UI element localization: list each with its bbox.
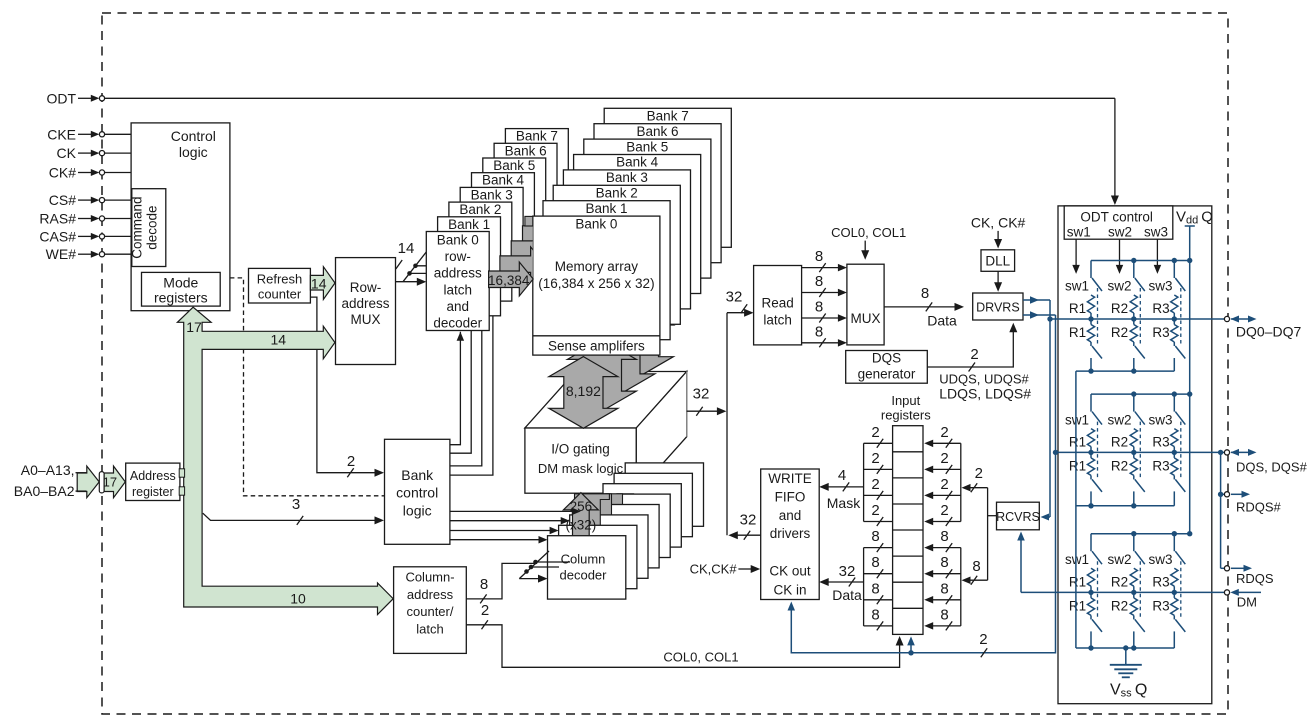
svg-text:RCVRS: RCVRS	[996, 510, 1040, 524]
svg-text:DLL: DLL	[985, 253, 1010, 268]
dashed wire: Mode registers to Bank control logic	[230, 278, 385, 496]
svg-text:DQS, DQS#: DQS, DQS#	[1236, 460, 1308, 475]
svg-text:2: 2	[871, 502, 879, 519]
svg-text:8: 8	[480, 576, 488, 593]
latch box bank 6	[494, 143, 557, 242]
input pin CKE	[47, 126, 131, 142]
svg-text:8: 8	[871, 554, 879, 571]
svg-text:4: 4	[838, 467, 846, 484]
gray bus chunk 256 bank 2	[595, 494, 612, 519]
svg-text:sw2: sw2	[1107, 279, 1131, 294]
memory array box bank 2	[553, 185, 680, 324]
svg-text:sw3: sw3	[1144, 224, 1168, 239]
column decoder box bank 5	[603, 484, 681, 547]
latch box bank 5	[483, 158, 546, 257]
svg-text:8: 8	[940, 580, 948, 597]
svg-text:Bank 1: Bank 1	[585, 201, 627, 216]
wires 8x4: read latch to MUX	[802, 248, 847, 347]
svg-text:Sense amplifers: Sense amplifers	[548, 339, 645, 354]
wire 8: column counter to column decoders	[466, 563, 535, 603]
svg-text:32: 32	[693, 386, 710, 403]
svg-text:latch: latch	[444, 282, 473, 297]
svg-text:Mode: Mode	[163, 274, 198, 290]
label COL0, COL1 into MUX	[831, 225, 906, 260]
svg-text:Bank: Bank	[401, 467, 434, 483]
memory array box bank 4	[574, 155, 701, 294]
navy wire: DRVRS lower output / DQS loop	[788, 311, 1056, 657]
gray bus chunk 256 bank 6	[0, 0, 1, 1]
block: Refresh counter	[249, 268, 311, 303]
svg-text:R3: R3	[1152, 574, 1169, 589]
input pin CAS#	[39, 228, 131, 244]
svg-text:and: and	[447, 299, 470, 314]
column decoder fanout taps	[519, 551, 570, 583]
wire 2: RCVRS to upper register bus	[962, 465, 988, 492]
block: ODT control header	[1064, 206, 1173, 239]
svg-text:R3: R3	[1152, 301, 1169, 316]
svg-text:(16,384 x 256 x 32): (16,384 x 256 x 32)	[538, 276, 654, 291]
svg-text:8: 8	[871, 528, 879, 545]
DQ cell bottom rail	[1076, 368, 1174, 373]
gray bus chunk 256 bank 4	[617, 494, 634, 498]
column decoder labels	[560, 552, 608, 583]
svg-text:R2: R2	[1111, 598, 1128, 613]
input pin RAS#	[39, 211, 131, 227]
svg-text:Command: Command	[130, 196, 145, 258]
svg-text:Bank 7: Bank 7	[516, 129, 558, 144]
svg-text:registers: registers	[154, 289, 208, 305]
column decoder box bank 2	[570, 515, 648, 578]
block: RCVRS	[996, 502, 1040, 530]
svg-text:Address: Address	[130, 469, 176, 483]
wire 32: write FIFO output	[728, 512, 760, 540]
svg-text:A0–A13,: A0–A13,	[21, 462, 75, 478]
svg-text:ODT control: ODT control	[1080, 210, 1153, 225]
svg-text:Bank 5: Bank 5	[493, 158, 535, 173]
svg-text:14: 14	[398, 240, 415, 257]
DM cell labels	[1065, 552, 1173, 613]
block: I/O gating / DM mask logic (3D box)	[525, 372, 687, 494]
svg-text:8: 8	[815, 273, 823, 290]
green arrow 17 into address register	[104, 466, 125, 498]
wire 32: I/O gating output	[687, 386, 727, 416]
wires: bank control logic to row latches (bank select)	[450, 316, 493, 475]
svg-text:Bank 3: Bank 3	[606, 170, 648, 185]
svg-text:COL0, COL1: COL0, COL1	[831, 225, 906, 240]
labels UDQS/LDQS	[939, 371, 1031, 401]
svg-text:CK#: CK#	[49, 165, 76, 181]
latch box bank 2	[449, 202, 512, 301]
svg-text:latch: latch	[763, 313, 792, 328]
svg-text:BA0–BA2: BA0–BA2	[14, 483, 75, 499]
wire ODT to ODT control block	[1111, 98, 1119, 205]
svg-text:logic: logic	[403, 502, 432, 518]
DM cell bottom rail	[1076, 645, 1174, 650]
green input arrow (address)	[77, 466, 99, 498]
svg-text:CAS#: CAS#	[39, 228, 76, 244]
wire 32 Data from registers to write FIFO	[819, 563, 863, 603]
RCVRS feed bus vertical	[988, 488, 997, 581]
DQS line	[1053, 450, 1224, 455]
svg-text:Bank 1: Bank 1	[448, 217, 490, 232]
svg-text:LDQS, LDQS#: LDQS, LDQS#	[939, 386, 1031, 402]
pad DM	[1224, 589, 1261, 610]
latch box bank 7	[505, 129, 568, 228]
pad on address input	[99, 472, 104, 493]
column decoder box bank 0	[548, 536, 626, 599]
pad DQ0-DQ7	[1224, 316, 1301, 340]
sense amplifiers strip	[533, 336, 660, 354]
svg-text:address: address	[434, 266, 482, 281]
wire 8 Data from MUX to DRVRS	[884, 285, 964, 329]
svg-text:sw1: sw1	[1065, 552, 1089, 567]
svg-text:R3: R3	[1152, 598, 1169, 613]
svg-text:CKE: CKE	[47, 126, 76, 142]
svg-text:Data: Data	[832, 587, 862, 603]
green tabs address register to bus	[179, 469, 184, 477]
svg-text:CK, CK#: CK, CK#	[971, 215, 1026, 231]
pad RDQS#	[1224, 491, 1281, 515]
svg-text:2: 2	[871, 424, 879, 441]
svg-text:decoder: decoder	[433, 316, 482, 331]
gray bus arrow 8,192 (front)	[549, 357, 618, 429]
svg-text:RDQS#: RDQS#	[1236, 500, 1282, 515]
gray bus chunk 256 bank 3	[606, 494, 623, 509]
memory array box bank 5	[584, 139, 711, 278]
latch box bank 1	[438, 217, 501, 316]
svg-text:32: 32	[839, 563, 856, 580]
wire 14: row-address MUX to bank row-address latches	[396, 240, 438, 286]
svg-text:DQS: DQS	[872, 350, 901, 365]
block: Command decode	[130, 189, 166, 267]
svg-text:8: 8	[815, 323, 823, 340]
column decoder box bank 6	[614, 473, 692, 536]
svg-text:16,384: 16,384	[488, 273, 530, 288]
wire 3: address bus to bank control logic	[203, 496, 384, 525]
svg-text:generator: generator	[858, 366, 916, 381]
svg-text:2: 2	[940, 502, 948, 519]
wire 32: to read latch	[726, 289, 754, 317]
svg-text:R3: R3	[1152, 458, 1169, 473]
svg-text:3: 3	[292, 496, 300, 513]
block: DQS generator	[846, 350, 928, 383]
navy wire: DM line to RCVRS	[1017, 532, 1025, 593]
svg-text:R1: R1	[1069, 434, 1086, 449]
svg-text:R2: R2	[1111, 434, 1128, 449]
svg-text:address: address	[341, 296, 389, 311]
svg-text:R2: R2	[1111, 325, 1128, 340]
ground symbol Vss Q	[1110, 648, 1142, 677]
svg-text:DM mask logic: DM mask logic	[538, 461, 624, 476]
gray bus chunk 256 bank 1	[575, 494, 610, 530]
column decoder box bank 4	[592, 494, 670, 557]
svg-text:R2: R2	[1111, 574, 1128, 589]
memory array box bank 6	[594, 124, 721, 263]
DQ cell labels	[1065, 279, 1173, 340]
svg-text:sw1: sw1	[1065, 413, 1089, 428]
svg-text:8,192: 8,192	[566, 383, 601, 399]
block: Input registers (8 cells)	[881, 393, 931, 635]
svg-text:Bank 2: Bank 2	[596, 186, 638, 201]
latch bank 0 labels	[433, 233, 482, 331]
svg-text:2: 2	[347, 453, 355, 470]
memory array box bank 1	[543, 201, 670, 340]
svg-text:sw1: sw1	[1067, 224, 1091, 239]
column decoder box bank 3	[581, 505, 659, 568]
svg-text:2: 2	[940, 424, 948, 441]
svg-text:2: 2	[975, 465, 983, 482]
svg-text:RAS#: RAS#	[39, 211, 76, 227]
control arrows to switches	[1072, 239, 1161, 274]
column decoder box bank 7	[625, 463, 703, 526]
svg-text:R3: R3	[1152, 434, 1169, 449]
svg-text:Mask: Mask	[827, 495, 861, 511]
svg-text:sw2: sw2	[1107, 413, 1131, 428]
svg-text:R2: R2	[1111, 458, 1128, 473]
svg-text:R1: R1	[1069, 301, 1086, 316]
svg-text:Row-: Row-	[350, 280, 382, 295]
block: Row-address MUX	[336, 258, 396, 365]
svg-text:Control: Control	[171, 128, 216, 144]
svg-text:Bank 0: Bank 0	[575, 217, 617, 232]
svg-text:2: 2	[871, 450, 879, 467]
wire 4 Mask: registers to write FIFO	[819, 467, 863, 511]
svg-text:Bank 7: Bank 7	[647, 109, 689, 124]
pad RDQS	[1224, 565, 1273, 586]
svg-text:R2: R2	[1111, 301, 1128, 316]
svg-text:address: address	[407, 587, 454, 602]
DQS cell bottom rail	[1076, 503, 1174, 508]
label CK,CK# into write FIFO	[690, 562, 761, 577]
DM line	[1021, 591, 1224, 593]
svg-text:R3: R3	[1152, 325, 1169, 340]
svg-text:decode: decode	[145, 205, 160, 249]
svg-text:CK,CK#: CK,CK#	[690, 562, 738, 577]
svg-text:32: 32	[726, 289, 743, 306]
svg-text:Bank 6: Bank 6	[505, 143, 547, 158]
memory array box bank 7	[604, 108, 731, 247]
svg-text:14: 14	[311, 275, 327, 291]
green bus arrow 14: refresh counter to row-address MUX	[310, 267, 335, 300]
svg-text:32: 32	[740, 512, 757, 529]
green address bus (17 to mode registers, 14 to row MUX, 10 to column counter)	[177, 307, 393, 614]
svg-text:(x32): (x32)	[566, 518, 597, 533]
input pin CK#	[49, 165, 131, 181]
svg-text:2: 2	[970, 346, 978, 363]
svg-text:Bank 0: Bank 0	[437, 233, 479, 248]
svg-text:and: and	[779, 508, 802, 523]
svg-text:2: 2	[979, 631, 987, 648]
svg-text:CK in: CK in	[773, 582, 806, 597]
svg-text:logic: logic	[179, 144, 208, 160]
wire 2: refresh counter to bank control logic	[310, 297, 384, 477]
svg-text:Column-: Column-	[405, 570, 454, 585]
wires: bank control logic to column decoders (bank select)	[450, 508, 581, 544]
svg-text:Bank 4: Bank 4	[616, 155, 659, 170]
svg-text:2: 2	[481, 602, 489, 619]
block: Bank control logic	[385, 439, 450, 544]
block: DLL	[981, 250, 1015, 271]
svg-text:8: 8	[940, 554, 948, 571]
svg-text:sw1: sw1	[1065, 279, 1089, 294]
memory array bank 0 labels	[538, 217, 654, 292]
svg-text:COL0, COL1: COL0, COL1	[663, 650, 738, 665]
ODT termination cell for DQ (switches sw1-sw3, resistors R1,R2,R3)	[1087, 258, 1192, 371]
svg-text:R1: R1	[1069, 598, 1086, 613]
gray bus arrows 8192 (back layers)	[567, 305, 673, 411]
block: Control logic U1	[131, 123, 230, 311]
svg-text:FIFO: FIFO	[775, 489, 806, 504]
wires: input registers right buses	[924, 424, 961, 631]
svg-text:8: 8	[940, 528, 948, 545]
svg-text:control: control	[396, 484, 438, 500]
input pin CK	[57, 145, 132, 161]
svg-text:register: register	[132, 485, 174, 499]
RDQS/RDQS# branch	[1218, 450, 1224, 569]
block: MUX	[847, 264, 884, 345]
column decoder box bank 1	[559, 525, 637, 588]
svg-text:decoder: decoder	[560, 568, 608, 583]
svg-text:8: 8	[871, 580, 879, 597]
svg-text:Bank 6: Bank 6	[636, 124, 678, 139]
input pin CS#	[49, 192, 131, 208]
block: Read latch	[754, 266, 802, 345]
wire DLL to DRVRS	[994, 271, 1002, 291]
block: DRVRS	[973, 293, 1023, 320]
input pin ODT	[46, 90, 1114, 106]
svg-text:Bank 5: Bank 5	[626, 139, 668, 154]
svg-text:CS#: CS#	[49, 192, 76, 208]
svg-text:Data: Data	[927, 313, 957, 329]
svg-text:DRVRS: DRVRS	[976, 301, 1020, 315]
pad DQS, DQS#	[1224, 449, 1307, 475]
block: ODT control outer box	[1058, 206, 1212, 704]
svg-text:row-: row-	[445, 249, 471, 264]
latch box bank 3	[460, 187, 523, 286]
svg-text:DQ0–DQ7: DQ0–DQ7	[1236, 324, 1302, 340]
svg-text:WRITE: WRITE	[768, 471, 812, 486]
memory array box bank 0	[533, 216, 660, 355]
svg-text:2: 2	[871, 476, 879, 493]
svg-text:CK out: CK out	[769, 564, 811, 579]
svg-text:8: 8	[871, 606, 879, 623]
latch box bank 0	[426, 232, 489, 331]
wire 2: column counter COL0,COL1 to input registers	[466, 602, 903, 667]
svg-text:sw3: sw3	[1148, 279, 1172, 294]
svg-text:R1: R1	[1069, 458, 1086, 473]
svg-text:8: 8	[940, 606, 948, 623]
svg-text:8: 8	[815, 248, 823, 265]
svg-text:CK: CK	[57, 145, 77, 161]
wire 8: RCVRS to lower register bus	[962, 558, 988, 585]
svg-text:Bank 2: Bank 2	[459, 202, 501, 217]
block: WRITE FIFO and drivers	[761, 469, 820, 600]
input pin WE#	[46, 246, 131, 262]
svg-text:ODT: ODT	[46, 90, 76, 106]
svg-text:counter/: counter/	[407, 604, 454, 619]
gray bus chunk 256 bank 7	[0, 0, 1, 1]
block: Address register	[126, 463, 180, 500]
svg-text:17: 17	[103, 474, 117, 489]
wire 32 bus vertical (read/write data)	[726, 313, 728, 536]
svg-text:sw2: sw2	[1107, 552, 1131, 567]
block: Mode registers	[142, 272, 221, 306]
memory array box bank 3	[563, 170, 690, 309]
DQS cell labels	[1065, 413, 1173, 474]
ODT termination cell for DM/RDQS	[1087, 531, 1192, 648]
I/O gating labels	[538, 442, 624, 477]
gray bus arrow 256 (x32) front	[563, 493, 598, 540]
svg-text:Input: Input	[891, 393, 920, 408]
svg-text:2: 2	[940, 450, 948, 467]
gray bus arrow 16,384 (front)	[489, 262, 534, 296]
svg-text:8: 8	[815, 299, 823, 316]
svg-text:counter: counter	[258, 287, 302, 302]
svg-text:2: 2	[940, 476, 948, 493]
svg-text:Bank 3: Bank 3	[471, 187, 513, 202]
DQ line	[1047, 316, 1224, 321]
gray bus chunk 256 bank 5	[0, 0, 1, 1]
svg-text:DM: DM	[1237, 595, 1257, 610]
svg-text:sw3: sw3	[1148, 413, 1172, 428]
svg-text:sw2: sw2	[1108, 224, 1132, 239]
latch box bank 4	[472, 173, 535, 272]
Vdd Q supply	[1176, 209, 1213, 534]
inter-cell ground vertical	[1075, 371, 1077, 648]
wire 2: DQS generator to DRVRS	[927, 323, 1017, 372]
svg-text:WE#: WE#	[46, 246, 77, 262]
svg-text:8: 8	[921, 285, 929, 302]
svg-text:latch: latch	[416, 621, 443, 636]
svg-text:8: 8	[972, 558, 980, 575]
block: Column-address counter/latch	[394, 567, 467, 654]
svg-text:Read: Read	[761, 296, 793, 311]
ODT termination cell for DQS	[1087, 391, 1192, 505]
svg-text:I/O gating: I/O gating	[551, 442, 610, 457]
svg-text:registers: registers	[881, 407, 931, 422]
label 256 (x32)	[566, 499, 597, 533]
svg-text:RDQS: RDQS	[1236, 571, 1274, 586]
svg-text:10: 10	[290, 591, 306, 607]
wire CK to DLL	[994, 231, 1002, 249]
svg-text:R1: R1	[1069, 574, 1086, 589]
svg-text:R1: R1	[1069, 325, 1086, 340]
svg-text:14: 14	[271, 332, 287, 348]
svg-text:Column: Column	[561, 552, 606, 567]
navy wire: DRVRS output to DQ line	[1023, 296, 1050, 520]
svg-text:MUX: MUX	[351, 312, 381, 327]
svg-text:17: 17	[186, 319, 202, 335]
svg-text:UDQS, UDQS#: UDQS, UDQS#	[939, 371, 1029, 386]
wires: input registers left buses (mask 2x4, data 8x4)	[864, 424, 893, 631]
svg-text:Refresh: Refresh	[257, 271, 303, 286]
svg-text:MUX: MUX	[851, 311, 881, 326]
svg-text:sw3: sw3	[1148, 552, 1172, 567]
svg-text:Memory array: Memory array	[555, 259, 639, 274]
svg-text:drivers: drivers	[770, 526, 811, 541]
svg-text:Bank 4: Bank 4	[482, 173, 525, 188]
